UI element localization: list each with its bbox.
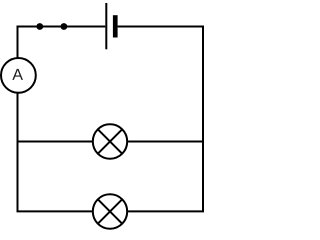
wire bottom horizontal — [17, 210, 205, 212]
ammeter A1 — [1, 58, 36, 93]
wire left vertical — [17, 27, 19, 212]
switch S1 (closed) — [36, 23, 67, 30]
wire top right segment — [118, 26, 203, 28]
wire right vertical — [202, 26, 204, 212]
battery B1 — [106, 3, 117, 49]
lamp L1 — [93, 124, 127, 158]
wire top left segment — [17, 26, 106, 28]
lamp L2 — [93, 194, 127, 228]
wire middle horizontal — [18, 141, 204, 143]
